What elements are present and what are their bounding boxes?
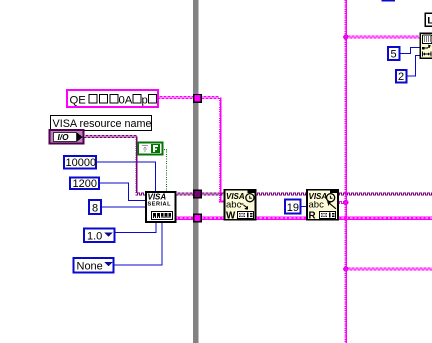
- wire VISA resource from I/O control: [84, 136, 137, 138]
- wire string long vertical trunk: [345, 0, 346, 343]
- svg-text:0A: 0A: [119, 95, 133, 107]
- svg-text:abc: abc: [309, 199, 325, 210]
- wire error cluster serial config to VISA Write: [176, 217, 225, 220]
- numeric constant 1200: [70, 178, 99, 191]
- wire VISA resource into serial config icon: [135, 193, 145, 195]
- svg-text:5: 5: [391, 49, 397, 61]
- label "VISA resource name": [51, 116, 152, 131]
- wire numeric 8 to serial config data bits: [101, 206, 145, 208]
- svg-text:p: p: [142, 95, 148, 107]
- VISA Configure Serial Port VI: [146, 192, 176, 222]
- svg-text:10000: 10000: [66, 157, 97, 169]
- numeric constant 2: [396, 70, 407, 83]
- svg-text:8: 8: [92, 203, 98, 215]
- tunnel error cluster (magenta square): [194, 214, 202, 222]
- wire VISA resource VISA Read to right edge: [338, 193, 432, 195]
- boolean constant False: [138, 143, 163, 155]
- structure border (gray vertical bar): [193, 0, 199, 343]
- VISA Write VI: [225, 190, 256, 222]
- VISA resource name control (I/O): [50, 130, 84, 144]
- wire string VISA Read buffer out to trunk: [338, 202, 347, 204]
- wire numeric 10000 to serial config timeout: [97, 162, 156, 192]
- wire VISA resource serial config to VISA Write: [176, 193, 225, 195]
- svg-text:I/O: I/O: [58, 132, 70, 142]
- string constant "QE□□□0A□p□": [67, 90, 158, 107]
- svg-text:None: None: [77, 261, 103, 273]
- numeric constant 8: [89, 200, 101, 215]
- wire boolean from F constant to serial config: [164, 150, 167, 192]
- wire VISA resource VISA Write to VISA Read: [256, 193, 308, 195]
- numeric constant 10000: [64, 156, 96, 169]
- wire numeric 19 byte count to VISA Read: [301, 206, 307, 208]
- svg-text:R: R: [309, 210, 316, 221]
- partially visible constant top edge: [382, 0, 396, 2]
- wire string trunk to string subset: [346, 36, 420, 38]
- ring constant None: [74, 258, 114, 273]
- junction node bottom branch: [344, 267, 349, 272]
- wire ring None to serial config flow control: [114, 223, 162, 266]
- wire string trunk to right edge bottom: [346, 268, 432, 270]
- wire numeric 5 to string subset offset: [400, 48, 420, 54]
- svg-text:VISA: VISA: [148, 193, 167, 202]
- wire error cluster VISA Write to VISA Read: [256, 217, 308, 220]
- tunnel string (magenta square): [194, 95, 202, 103]
- svg-text:19: 19: [287, 202, 299, 214]
- String Subset function: [420, 33, 432, 58]
- tunnel VISA resource (purple square): [194, 190, 202, 198]
- wire numeric 1200 to serial config baud rate: [100, 183, 146, 201]
- partially visible node top-right: [425, 13, 432, 26]
- wire VISA resource vertical segment: [136, 137, 137, 194]
- junction node read buffer: [344, 200, 349, 205]
- svg-text:2: 2: [398, 71, 404, 83]
- svg-text:VISA resource name: VISA resource name: [53, 118, 152, 130]
- svg-text:abc: abc: [226, 199, 242, 210]
- svg-text:QE: QE: [70, 95, 87, 107]
- wire ring 1.0 to serial config stop bits: [116, 223, 157, 233]
- VISA Read VI: [307, 190, 338, 222]
- svg-text:SERIAL: SERIAL: [148, 202, 172, 208]
- wire numeric 2 to string subset length: [406, 56, 420, 77]
- numeric constant 5: [388, 47, 400, 61]
- wire string vertical down to VISA Write input: [219, 98, 225, 202]
- ring constant 1.0: [84, 229, 115, 243]
- numeric constant 19: [285, 200, 301, 214]
- wire error cluster VISA Read to right edge: [338, 217, 432, 220]
- svg-text:1.0: 1.0: [87, 231, 102, 243]
- svg-text:1200: 1200: [73, 178, 97, 190]
- svg-text:W: W: [226, 210, 236, 221]
- wire string from QE constant to loop tunnel: [158, 97, 220, 99]
- junction node string trunk top: [344, 35, 349, 40]
